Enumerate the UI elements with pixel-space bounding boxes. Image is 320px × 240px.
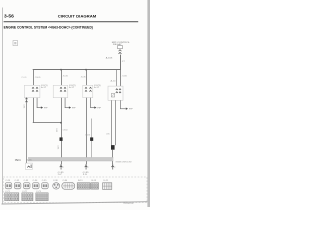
wire C2 down: [90, 119, 93, 158]
wire drop B: [60, 70, 63, 85]
wire stub g2: [64, 98, 67, 108]
svg-text:C-35: C-35: [42, 180, 47, 182]
svg-text:3-56: 3-56: [4, 14, 15, 19]
component box U4: [108, 86, 123, 100]
svg-text:JT: JT: [122, 61, 127, 63]
node junction C: [85, 69, 87, 71]
svg-text:ENGINE CONTROL SYSTEM <4G63-DO: ENGINE CONTROL SYSTEM <4G63-DOHC> (CONTI…: [4, 24, 94, 29]
svg-text:JT-0.85: JT-0.85: [35, 77, 41, 79]
U4 internal symbol: [111, 93, 114, 97]
connector icon grid D-21: [103, 183, 112, 190]
svg-text:A-26: A-26: [26, 158, 31, 161]
scan edge bottom: [2, 202, 148, 204]
scan edge left: [1, 8, 4, 204]
svg-text:JT-0.85: JT-0.85: [63, 76, 68, 78]
wire D1 down: [110, 100, 113, 145]
svg-text:C-32: C-32: [15, 180, 20, 182]
svg-text:C-80: C-80: [63, 180, 68, 182]
shield terminal D: [111, 145, 115, 150]
ISC branch connector: [26, 98, 28, 99]
svg-text:7FU0228: 7FU0228: [123, 203, 133, 205]
svg-text:2: 2: [88, 167, 89, 169]
connector icon row2-2: [22, 193, 33, 201]
wire drop D2: [119, 70, 122, 86]
node A-B join: [60, 122, 62, 124]
svg-text:2: 2: [114, 167, 115, 169]
svg-text:B-11: B-11: [78, 180, 83, 182]
connector termination C: [85, 164, 88, 170]
connector icon row1-4: [33, 183, 40, 189]
wire drop C: [85, 70, 88, 85]
wire C down: [85, 98, 88, 158]
svg-text:C-34: C-34: [33, 180, 38, 182]
wire drop A: [32, 70, 35, 85]
wire ISC branch: [25, 98, 28, 163]
svg-text:C-28: C-28: [5, 180, 10, 182]
arrow to F/P g1: [41, 106, 43, 108]
wire bus: [33, 68, 121, 71]
svg-text:0.85: 0.85: [22, 105, 24, 109]
wire B down: [60, 98, 63, 158]
connector icon row1-5: [42, 183, 49, 189]
wire C below band: [85, 161, 88, 164]
wire B below band: [60, 161, 63, 164]
connector icon grid B-13: [91, 183, 99, 189]
wire stub g3: [89, 98, 92, 108]
arrow to F/P g3: [94, 106, 96, 108]
svg-text:ISC: ISC: [15, 159, 22, 162]
shield terminal B: [60, 137, 63, 141]
svg-text:JT-0.85: JT-0.85: [85, 135, 90, 137]
connector icon round C-38: [53, 183, 60, 189]
U4 pins: [116, 89, 118, 90]
arrow to F/P g4: [126, 108, 128, 110]
svg-text:C-38: C-38: [53, 180, 58, 182]
connector icon big oval C-80: [62, 182, 75, 189]
joint connector J/C(1): [24, 85, 40, 97]
wire stub g1: [36, 98, 39, 108]
wire feed: [119, 55, 122, 70]
wire D2 down: [114, 100, 117, 145]
connector icon row2-3: [36, 193, 48, 201]
svg-text:0.85-B: 0.85-B: [63, 130, 68, 132]
fusible link box: [118, 46, 123, 49]
J/C(2) pins: [60, 87, 62, 88]
svg-text:JT-0.85: JT-0.85: [21, 77, 26, 79]
connector icon row2-1: [5, 193, 19, 201]
svg-text:JT-0.85: JT-0.85: [81, 76, 86, 78]
remark symbol box: [13, 41, 18, 46]
svg-text:A-16X: A-16X: [106, 57, 113, 60]
svg-text:CIRCUIT DIAGRAM: CIRCUIT DIAGRAM: [58, 15, 97, 19]
wire A down: [32, 98, 35, 123]
connector termination D: [111, 164, 114, 170]
wire D merged: [111, 150, 114, 158]
svg-text:B-13: B-13: [92, 180, 97, 182]
connector icon row1-2: [14, 183, 21, 189]
J/C(3) pins: [85, 87, 87, 88]
connector icon row1-3: [23, 183, 30, 189]
svg-text:19: 19: [83, 174, 87, 176]
wire A bend: [33, 121, 61, 124]
wire stub g4: [119, 100, 122, 108]
connector panel dashed border: [3, 177, 147, 203]
svg-text:0.85: 0.85: [56, 146, 58, 150]
svg-text:D-21: D-21: [104, 180, 109, 182]
svg-text:0.85: 0.85: [55, 128, 57, 132]
svg-text:A-14: A-14: [111, 80, 117, 83]
wire drop D1: [115, 70, 118, 86]
ISC servo connector: [25, 163, 32, 169]
scan edge right: [147, 0, 150, 207]
ECU band: [28, 156, 113, 159]
svg-text:F/P: F/P: [44, 108, 48, 110]
svg-text:0.85: 0.85: [106, 134, 109, 136]
svg-text:C-33: C-33: [24, 180, 29, 182]
svg-text:2: 2: [63, 167, 64, 169]
svg-text:F/P: F/P: [129, 109, 133, 111]
connector icon row1-1: [5, 183, 12, 189]
connector termination B: [60, 164, 63, 170]
svg-text:F/P: F/P: [98, 108, 102, 110]
svg-text:ENGINE CONTROL UNIT: ENGINE CONTROL UNIT: [116, 161, 132, 163]
wire D below band: [111, 161, 114, 164]
shield terminal C2: [90, 137, 93, 141]
connector icon grid B-11: [77, 183, 90, 189]
connector chevrons A-16X: [119, 50, 122, 52]
joint connector J/C(3): [83, 85, 93, 97]
node junction B: [60, 69, 62, 71]
arrow to F/P g2: [69, 106, 71, 108]
joint connector J/C(2): [53, 85, 68, 97]
header rule: [4, 20, 139, 23]
svg-text:57: 57: [58, 174, 62, 176]
J/C(1) pins: [32, 87, 34, 88]
svg-text:JT-0.85: JT-0.85: [122, 76, 127, 78]
svg-text:F/P: F/P: [72, 108, 76, 110]
